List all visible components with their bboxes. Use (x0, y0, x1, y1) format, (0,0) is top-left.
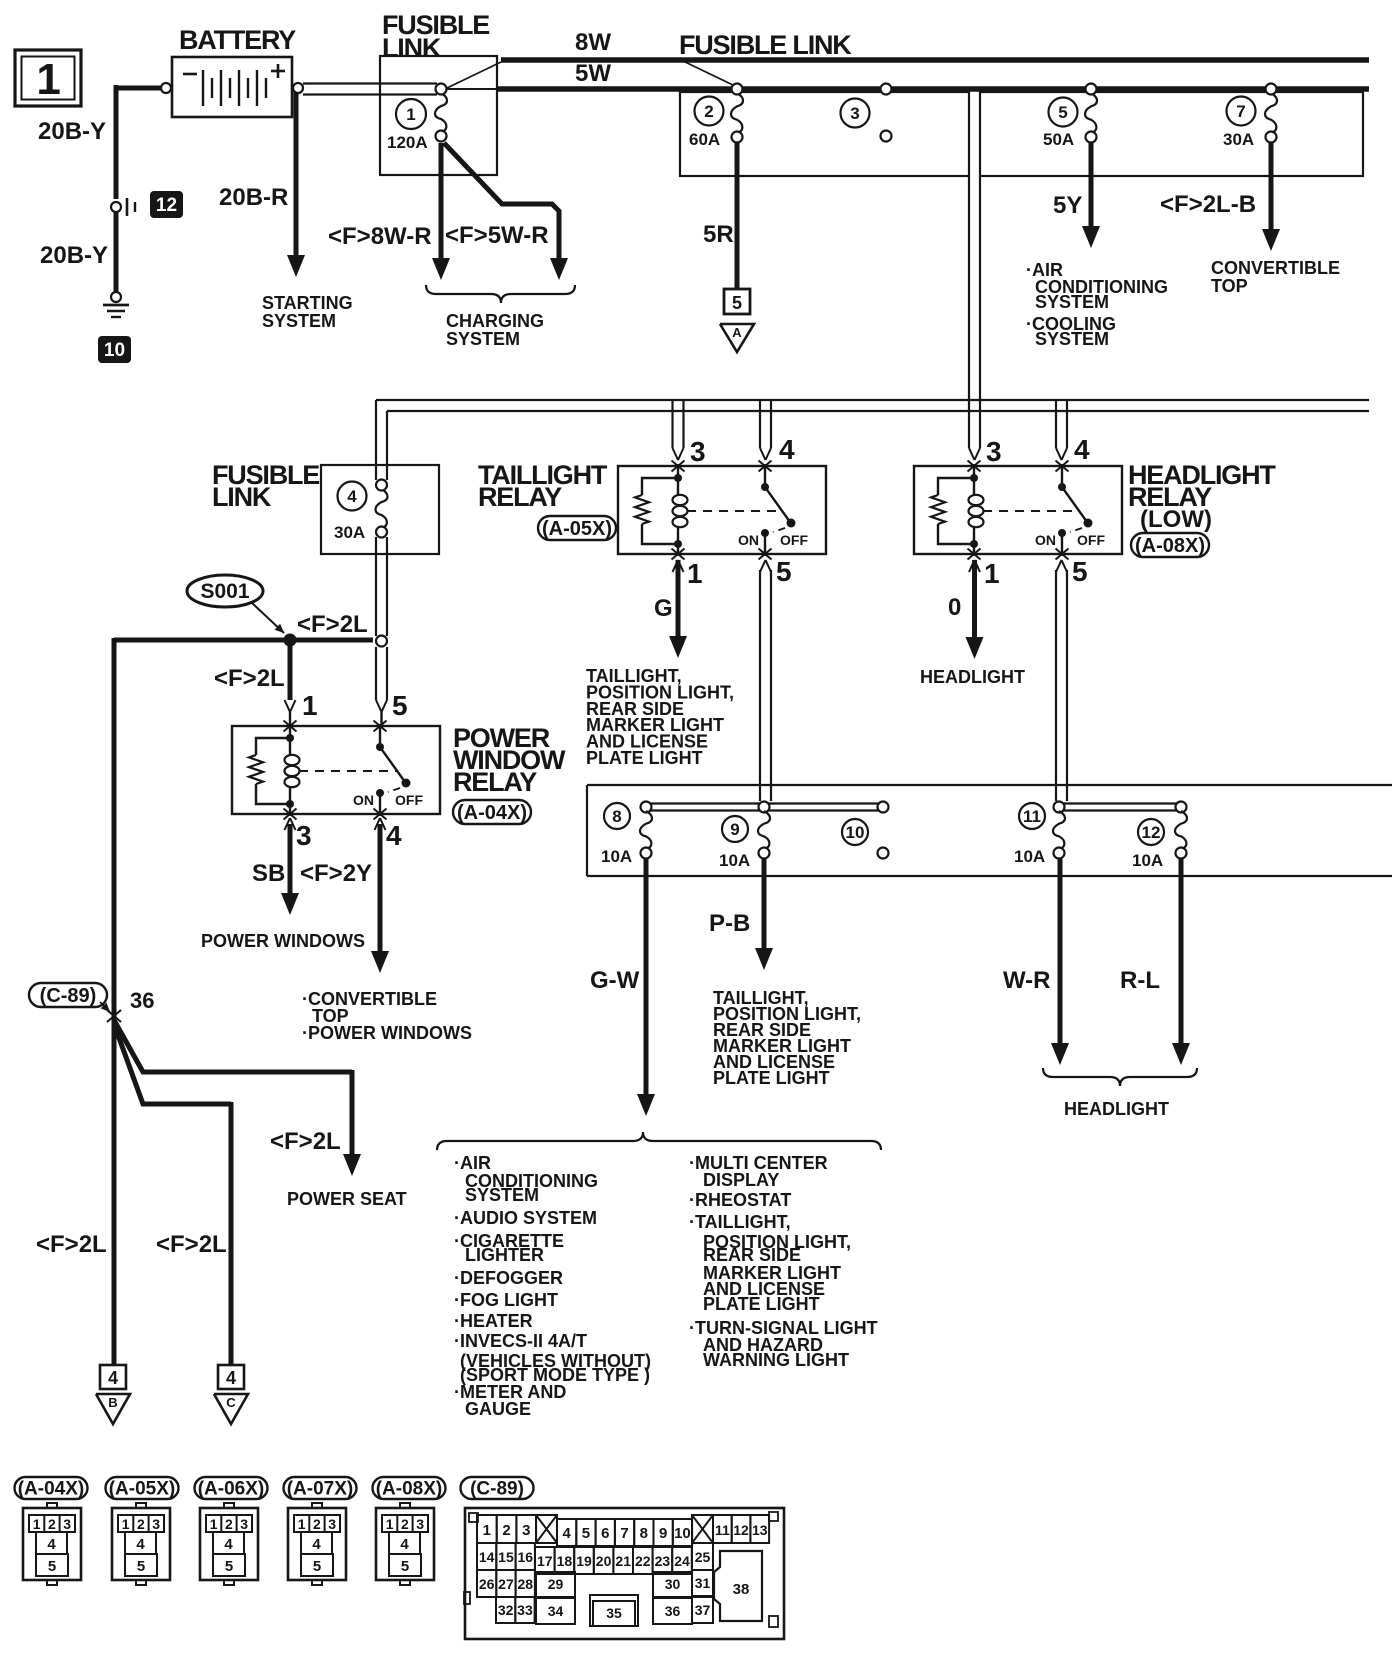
svg-text:1: 1 (483, 1522, 491, 1539)
svg-text:7: 7 (620, 1525, 628, 1542)
svg-text:7: 7 (1236, 102, 1245, 121)
svg-text:CONVERTIBLE: CONVERTIBLE (1211, 258, 1340, 278)
svg-text:OFF: OFF (1077, 532, 1105, 548)
svg-text:BATTERY: BATTERY (179, 25, 296, 55)
svg-text:4: 4 (779, 434, 795, 465)
svg-text:(A-04X): (A-04X) (457, 802, 527, 824)
svg-text:(C-89): (C-89) (40, 985, 97, 1007)
svg-text:W-R: W-R (1003, 967, 1051, 994)
svg-text:5R: 5R (703, 221, 734, 248)
svg-text:CHARGING: CHARGING (446, 311, 544, 331)
svg-text:LIGHTER: LIGHTER (465, 1245, 544, 1265)
svg-text:3: 3 (416, 1516, 424, 1532)
svg-text:5: 5 (1058, 103, 1067, 122)
svg-text:REAR SIDE: REAR SIDE (703, 1245, 801, 1265)
svg-text:ON: ON (1035, 532, 1056, 548)
svg-text:2: 2 (502, 1522, 510, 1539)
svg-text:35: 35 (606, 1605, 622, 1621)
svg-text:5: 5 (137, 1558, 145, 1575)
svg-text:36: 36 (130, 988, 154, 1013)
svg-text:DISPLAY: DISPLAY (703, 1170, 779, 1190)
svg-text:17: 17 (537, 1553, 553, 1569)
svg-text:3: 3 (850, 104, 859, 123)
svg-text:4: 4 (224, 1536, 233, 1553)
svg-text:1: 1 (122, 1516, 130, 1532)
svg-text:1: 1 (687, 558, 702, 589)
svg-text:·RHEOSTAT: ·RHEOSTAT (689, 1190, 791, 1210)
svg-text:<F>2L: <F>2L (297, 611, 368, 638)
svg-text:(A-04X): (A-04X) (18, 1479, 85, 1500)
svg-text:11: 11 (715, 1522, 730, 1538)
svg-text:RELAY: RELAY (453, 767, 537, 797)
svg-text:·POWER WINDOWS: ·POWER WINDOWS (302, 1023, 472, 1043)
svg-text:29: 29 (548, 1576, 564, 1592)
svg-text:(A-05X): (A-05X) (109, 1479, 176, 1500)
svg-text:1: 1 (210, 1516, 218, 1532)
svg-text:4: 4 (136, 1536, 145, 1553)
svg-text:12: 12 (156, 195, 177, 216)
svg-text:0: 0 (948, 594, 961, 621)
svg-text:POWER SEAT: POWER SEAT (287, 1189, 407, 1209)
svg-text:4: 4 (400, 1536, 409, 1553)
svg-text:PLATE LIGHT: PLATE LIGHT (713, 1068, 830, 1088)
svg-text:8W: 8W (575, 29, 611, 56)
svg-text:S001: S001 (200, 580, 249, 603)
svg-text:20B-Y: 20B-Y (40, 242, 108, 269)
svg-text:10: 10 (846, 823, 865, 842)
svg-text:(A-05X): (A-05X) (542, 518, 612, 540)
svg-text:2: 2 (401, 1516, 409, 1532)
svg-text:<F>2L: <F>2L (156, 1231, 227, 1258)
svg-text:2: 2 (704, 102, 713, 121)
svg-text:11: 11 (1023, 807, 1041, 826)
svg-text:9: 9 (659, 1525, 667, 1542)
svg-text:3: 3 (152, 1516, 160, 1532)
svg-text:5Y: 5Y (1053, 192, 1082, 219)
svg-text:50A: 50A (1043, 130, 1074, 149)
svg-text:·FOG LIGHT: ·FOG LIGHT (454, 1290, 558, 1310)
svg-text:R-L: R-L (1120, 967, 1160, 994)
svg-text:10A: 10A (719, 851, 750, 870)
svg-text:3: 3 (986, 436, 1001, 467)
svg-text:26: 26 (479, 1576, 495, 1592)
svg-text:4: 4 (386, 820, 402, 851)
svg-text:4: 4 (347, 487, 357, 506)
svg-text:10: 10 (104, 340, 125, 361)
svg-text:22: 22 (635, 1553, 651, 1569)
svg-text:SYSTEM: SYSTEM (1035, 292, 1109, 312)
svg-text:<F>2L: <F>2L (270, 1128, 341, 1155)
svg-text:STARTING: STARTING (262, 293, 353, 313)
svg-text:1: 1 (302, 690, 317, 721)
svg-text:12: 12 (1142, 823, 1161, 842)
svg-text:·INVECS-II 4A/T: ·INVECS-II 4A/T (454, 1331, 587, 1351)
svg-text:(C-89): (C-89) (470, 1479, 524, 1500)
svg-text:<F>2L-B: <F>2L-B (1160, 191, 1256, 218)
svg-text:33: 33 (517, 1602, 533, 1618)
svg-text:3: 3 (522, 1522, 530, 1539)
svg-text:5: 5 (582, 1525, 590, 1542)
svg-text:4: 4 (1074, 434, 1090, 465)
svg-text:2: 2 (225, 1516, 233, 1532)
svg-text:18: 18 (557, 1553, 573, 1569)
svg-text:5: 5 (313, 1558, 321, 1575)
svg-text:G: G (654, 595, 673, 622)
svg-text:HEADLIGHT: HEADLIGHT (920, 667, 1025, 687)
svg-text:A: A (732, 325, 742, 340)
svg-text:32: 32 (498, 1602, 514, 1618)
svg-text:8: 8 (612, 807, 621, 826)
svg-text:(A-07X): (A-07X) (287, 1479, 354, 1500)
svg-text:<F>8W-R: <F>8W-R (328, 223, 432, 250)
svg-text:TOP: TOP (1211, 276, 1248, 296)
svg-text:5: 5 (48, 1558, 56, 1575)
svg-text:OFF: OFF (395, 792, 423, 808)
svg-text:31: 31 (695, 1575, 711, 1591)
svg-text:10A: 10A (601, 847, 632, 866)
svg-text:37: 37 (695, 1602, 711, 1618)
svg-text:14: 14 (479, 1549, 495, 1565)
svg-text:1: 1 (406, 105, 415, 124)
svg-text:<F>2L: <F>2L (36, 1231, 107, 1258)
svg-text:5: 5 (1072, 556, 1087, 587)
svg-text:1: 1 (386, 1516, 394, 1532)
svg-text:30: 30 (665, 1576, 681, 1592)
svg-text:12: 12 (733, 1522, 749, 1538)
svg-text:HEADLIGHT: HEADLIGHT (1064, 1099, 1169, 1119)
svg-text:POWER WINDOWS: POWER WINDOWS (201, 931, 365, 951)
svg-text:ON: ON (353, 792, 374, 808)
svg-text:G-W: G-W (590, 967, 640, 994)
svg-text:PLATE LIGHT: PLATE LIGHT (586, 748, 703, 768)
svg-text:15: 15 (498, 1549, 514, 1565)
svg-text:C: C (226, 1395, 236, 1410)
svg-text:1: 1 (984, 558, 999, 589)
svg-text:27: 27 (498, 1576, 514, 1592)
svg-text:GAUGE: GAUGE (465, 1399, 531, 1419)
svg-text:3: 3 (296, 820, 311, 851)
svg-text:·HEATER: ·HEATER (454, 1311, 533, 1331)
svg-text:3: 3 (690, 436, 705, 467)
svg-text:5: 5 (776, 556, 791, 587)
svg-text:20: 20 (596, 1553, 612, 1569)
svg-text:·AUDIO SYSTEM: ·AUDIO SYSTEM (454, 1208, 597, 1228)
svg-text:2: 2 (137, 1516, 145, 1532)
svg-text:120A: 120A (387, 133, 428, 152)
svg-text:RELAY: RELAY (478, 482, 562, 512)
svg-text:SYSTEM: SYSTEM (465, 1185, 539, 1205)
svg-text:PLATE LIGHT: PLATE LIGHT (703, 1294, 820, 1314)
svg-text:<F>2Y: <F>2Y (300, 860, 372, 887)
svg-text:(A-06X): (A-06X) (198, 1479, 265, 1500)
svg-text:5: 5 (392, 690, 407, 721)
svg-text:6: 6 (601, 1525, 609, 1542)
svg-text:5: 5 (732, 293, 742, 313)
svg-text:·TAILLIGHT,: ·TAILLIGHT, (689, 1212, 791, 1232)
svg-text:23: 23 (655, 1553, 671, 1569)
svg-text:1: 1 (33, 1516, 41, 1532)
svg-text:10: 10 (674, 1525, 691, 1542)
svg-text:30A: 30A (334, 523, 365, 542)
svg-text:·DEFOGGER: ·DEFOGGER (454, 1268, 563, 1288)
svg-text:(A-08X): (A-08X) (376, 1479, 443, 1500)
svg-text:SB: SB (252, 860, 285, 887)
svg-text:28: 28 (517, 1576, 533, 1592)
svg-text:ON: ON (738, 532, 759, 548)
svg-text:B: B (108, 1395, 117, 1410)
svg-text:LINK: LINK (382, 33, 442, 63)
svg-text:10A: 10A (1014, 847, 1045, 866)
svg-text:34: 34 (548, 1603, 564, 1619)
svg-text:SYSTEM: SYSTEM (262, 311, 336, 331)
svg-text:19: 19 (576, 1553, 592, 1569)
svg-text:4: 4 (312, 1536, 321, 1553)
svg-text:20B-Y: 20B-Y (38, 118, 106, 145)
svg-text:30A: 30A (1223, 130, 1254, 149)
svg-text:24: 24 (674, 1553, 690, 1569)
svg-text:OFF: OFF (780, 532, 808, 548)
svg-text:(LOW): (LOW) (1140, 506, 1212, 533)
svg-text:16: 16 (517, 1549, 533, 1565)
svg-text:5: 5 (225, 1558, 233, 1575)
svg-text:P-B: P-B (709, 910, 750, 937)
svg-text:5: 5 (401, 1558, 409, 1575)
svg-text:8: 8 (640, 1525, 648, 1542)
svg-text:2: 2 (48, 1516, 56, 1532)
svg-text:·AIR: ·AIR (454, 1153, 491, 1173)
svg-text:4: 4 (47, 1536, 56, 1553)
svg-text:38: 38 (733, 1581, 750, 1598)
svg-text:FUSIBLE LINK: FUSIBLE LINK (679, 30, 852, 60)
svg-text:20B-R: 20B-R (219, 184, 288, 211)
svg-text:SYSTEM: SYSTEM (446, 329, 520, 349)
svg-text:1: 1 (298, 1516, 306, 1532)
svg-text:3: 3 (240, 1516, 248, 1532)
svg-text:SYSTEM: SYSTEM (1035, 329, 1109, 349)
svg-text:60A: 60A (689, 130, 720, 149)
svg-text:36: 36 (665, 1603, 681, 1619)
svg-text:3: 3 (328, 1516, 336, 1532)
svg-text:1: 1 (36, 55, 60, 104)
svg-text:(A-08X): (A-08X) (1135, 535, 1205, 557)
svg-text:13: 13 (752, 1522, 768, 1538)
svg-text:5W: 5W (575, 60, 611, 87)
svg-text:25: 25 (695, 1549, 711, 1565)
svg-text:2: 2 (313, 1516, 321, 1532)
svg-text:4: 4 (226, 1368, 236, 1388)
svg-text:3: 3 (63, 1516, 71, 1532)
svg-text:<F>5W-R: <F>5W-R (445, 222, 549, 249)
svg-text:4: 4 (108, 1368, 118, 1388)
svg-text:LINK: LINK (212, 482, 272, 512)
svg-text:10A: 10A (1132, 851, 1163, 870)
svg-text:9: 9 (730, 820, 739, 839)
svg-text:WARNING LIGHT: WARNING LIGHT (703, 1350, 849, 1370)
svg-text:<F>2L: <F>2L (214, 665, 285, 692)
svg-text:4: 4 (562, 1525, 571, 1542)
svg-text:21: 21 (615, 1553, 631, 1569)
